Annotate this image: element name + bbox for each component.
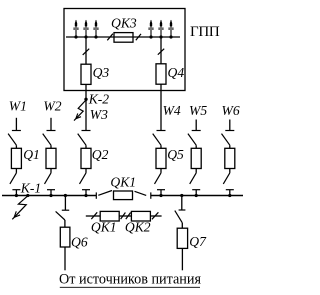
svg-text:QK1: QK1: [110, 175, 136, 190]
svg-text:QK3: QK3: [111, 15, 137, 30]
svg-text:W6: W6: [222, 103, 240, 118]
svg-text:Q4: Q4: [168, 65, 185, 80]
svg-text:W4: W4: [163, 103, 181, 118]
svg-text:Q3: Q3: [93, 65, 110, 80]
svg-text:Q7: Q7: [189, 234, 207, 249]
svg-text:От источников питания: От источников питания: [59, 271, 201, 287]
svg-text:W1: W1: [9, 99, 27, 114]
svg-text:Q2: Q2: [92, 147, 109, 162]
svg-text:Q5: Q5: [167, 147, 184, 162]
svg-text:W2: W2: [43, 99, 61, 114]
svg-text:К-2: К-2: [88, 92, 110, 107]
svg-text:Q6: Q6: [71, 234, 88, 249]
svg-text:К-1: К-1: [20, 180, 41, 195]
svg-text:ГПП: ГПП: [190, 24, 220, 40]
svg-text:W3: W3: [90, 107, 108, 122]
svg-text:QK2: QK2: [125, 220, 151, 235]
svg-text:W5: W5: [189, 103, 207, 118]
svg-text:Q1: Q1: [23, 147, 40, 162]
svg-text:QK1: QK1: [91, 220, 117, 235]
